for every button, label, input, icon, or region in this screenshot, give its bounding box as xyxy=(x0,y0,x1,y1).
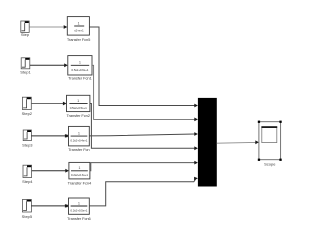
transfer fcn B6 xyxy=(69,198,90,214)
wire B2 to mux input 2 xyxy=(92,65,195,119)
svg-text:Step2: Step2 xyxy=(22,111,33,116)
svg-text:Transfer Fcn5: Transfer Fcn5 xyxy=(67,37,91,42)
scope xyxy=(258,121,282,161)
svg-text:1: 1 xyxy=(79,61,81,65)
wire B1 to mux input 1 xyxy=(89,27,194,106)
wire B4 to mux input 3 xyxy=(89,134,194,136)
svg-text:0.2s2+0.3s+1: 0.2s2+0.3s+1 xyxy=(71,173,88,177)
wire B3 to mux input 4 xyxy=(90,104,195,149)
svg-text:0.5s2+0.5s+1: 0.5s2+0.5s+1 xyxy=(70,106,87,110)
svg-text:0.5s2+0.6s+1: 0.5s2+0.6s+1 xyxy=(71,68,88,72)
transfer fcn B5 xyxy=(69,162,90,179)
step source S6 xyxy=(22,200,31,213)
wire B5 to mux input 5 xyxy=(90,163,195,171)
svg-text:Transfer Fcn2: Transfer Fcn2 xyxy=(66,113,90,118)
svg-text:s2+s+1: s2+s+1 xyxy=(74,28,84,32)
svg-text:Transfer Fcn6: Transfer Fcn6 xyxy=(67,216,91,221)
svg-text:Step1: Step1 xyxy=(20,69,31,74)
svg-text:1: 1 xyxy=(78,131,80,135)
svg-text:Transfer Fcn: Transfer Fcn xyxy=(68,147,89,152)
wire S5 to B5 xyxy=(32,170,66,172)
svg-text:1: 1 xyxy=(78,166,80,170)
svg-text:Transfer Fcn4: Transfer Fcn4 xyxy=(68,180,92,185)
wire S1 to B1 xyxy=(29,26,64,28)
transfer fcn B4 xyxy=(69,126,90,145)
svg-text:Step5: Step5 xyxy=(22,214,33,219)
step source S2 xyxy=(21,58,30,69)
svg-text:Step4: Step4 xyxy=(22,179,33,184)
wire S2 to B2 xyxy=(30,64,65,66)
wire S6 to B6 xyxy=(31,205,65,207)
mux xyxy=(198,98,217,187)
svg-text:Step3: Step3 xyxy=(22,142,33,147)
svg-text:0.2s2+0.5s+1: 0.2s2+0.5s+1 xyxy=(70,208,87,212)
svg-text:1: 1 xyxy=(78,22,80,26)
wire B6 to mux input 6 xyxy=(89,179,196,206)
transfer fcn B1 xyxy=(67,17,89,35)
wire S3 to B3 xyxy=(32,103,64,105)
step source S1 xyxy=(21,21,29,32)
transfer fcn B3 xyxy=(67,95,90,111)
step source S5 xyxy=(23,165,32,177)
transfer fcn B2 xyxy=(68,56,92,75)
step source S4 xyxy=(23,130,31,141)
step source S3 xyxy=(22,97,31,109)
wire mux to scope xyxy=(217,141,256,144)
svg-text:Transfer Fcn1: Transfer Fcn1 xyxy=(68,76,92,81)
wire S4 to B4 xyxy=(31,135,65,137)
svg-text:Step: Step xyxy=(21,32,30,37)
svg-text:Scope: Scope xyxy=(264,162,276,167)
svg-text:0.2s2+0.4s+1: 0.2s2+0.4s+1 xyxy=(70,139,87,143)
svg-text:1: 1 xyxy=(78,202,80,206)
svg-text:1: 1 xyxy=(77,99,79,103)
